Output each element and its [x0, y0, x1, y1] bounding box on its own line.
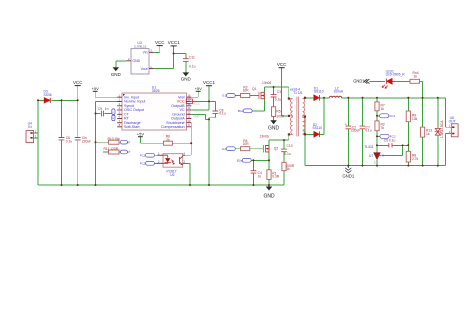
svg-text:0.1u: 0.1u: [66, 140, 73, 144]
svg-text:0.1u: 0.1u: [284, 152, 291, 156]
svg-text:U7: U7: [369, 154, 373, 158]
svg-text:14: 14: [187, 102, 190, 106]
svg-text:13n06: 13n06: [260, 134, 269, 138]
svg-text:CJ78L12: CJ78L12: [134, 45, 147, 49]
svg-text:10R: 10R: [243, 89, 250, 93]
svg-text:Vout: Vout: [141, 67, 148, 71]
svg-text:16: 16: [187, 93, 190, 97]
svg-text:220uF: 220uF: [351, 129, 360, 133]
svg-text:220uF: 220uF: [82, 140, 91, 144]
svg-text:C11: C11: [189, 55, 195, 59]
svg-text:GND: GND: [268, 125, 280, 131]
svg-text:+5V: +5V: [137, 131, 145, 136]
svg-text:Q1: Q1: [252, 87, 257, 91]
svg-text:R5: R5: [276, 109, 280, 113]
svg-text:RT: RT: [127, 141, 131, 144]
svg-text:13n06: 13n06: [262, 81, 271, 85]
svg-text:R10 15k: R10 15k: [108, 137, 121, 141]
svg-text:1k: 1k: [426, 132, 430, 136]
svg-text:100uH: 100uH: [334, 89, 344, 93]
svg-text:13: 13: [187, 106, 190, 110]
svg-text:VCC1: VCC1: [203, 80, 216, 85]
svg-text:B2a: B2a: [237, 159, 243, 163]
svg-text:1k: 1k: [414, 74, 418, 78]
svg-text:C9: C9: [98, 107, 102, 111]
svg-text:0.3R: 0.3R: [272, 175, 280, 179]
svg-text:1k: 1k: [381, 107, 385, 111]
svg-text:GND1: GND1: [353, 79, 365, 84]
svg-text:GND: GND: [194, 114, 200, 118]
svg-text:VCC: VCC: [155, 40, 165, 45]
svg-text:VCC: VCC: [277, 62, 287, 67]
svg-text:VCC1: VCC1: [193, 101, 200, 105]
svg-text:FC2: FC2: [140, 162, 146, 166]
svg-text:G1: G1: [222, 94, 226, 98]
svg-text:+: +: [345, 122, 347, 126]
svg-text:C10: C10: [287, 144, 293, 148]
svg-text:11: 11: [188, 115, 191, 119]
svg-text:10: 10: [187, 119, 190, 123]
svg-text:CT: CT: [127, 151, 131, 154]
svg-text:10k: 10k: [412, 117, 418, 121]
svg-text:TL431: TL431: [364, 145, 374, 149]
svg-text:0.1u: 0.1u: [189, 64, 196, 68]
svg-text:0.1u: 0.1u: [275, 97, 282, 101]
svg-text:C5 0.1u: C5 0.1u: [384, 139, 396, 143]
svg-text:LED-0805_R: LED-0805_R: [386, 73, 406, 77]
svg-text:10R: 10R: [243, 142, 250, 146]
svg-text:12: 12: [187, 111, 190, 115]
svg-text:1.5KE15CA: 1.5KE15CA: [440, 120, 444, 138]
svg-text:+5V: +5V: [195, 86, 203, 91]
svg-text:FC1: FC1: [390, 114, 396, 118]
svg-text:SS110: SS110: [314, 89, 324, 93]
svg-text:0.1u: 0.1u: [365, 129, 372, 133]
svg-text:SS36: SS36: [44, 93, 52, 97]
svg-text:OUT: OUT: [449, 120, 456, 124]
svg-text:VCC: VCC: [73, 80, 83, 85]
svg-text:G2: G2: [222, 147, 226, 151]
svg-text:Soft-Start: Soft-Start: [124, 125, 140, 129]
svg-text:2k: 2k: [166, 138, 170, 142]
svg-text:+5V: +5V: [92, 86, 100, 91]
svg-text:15: 15: [187, 98, 190, 102]
svg-text:FC1: FC1: [140, 153, 146, 157]
svg-text:GND: GND: [263, 194, 275, 200]
svg-text:GND: GND: [181, 76, 192, 81]
svg-text:T1 1/6: T1 1/6: [293, 91, 302, 95]
svg-text:GND: GND: [111, 72, 122, 77]
svg-text:GND1: GND1: [342, 173, 355, 178]
svg-text:3525: 3525: [152, 89, 160, 93]
svg-text:Q2: Q2: [274, 147, 279, 151]
svg-text:B1a: B1a: [238, 109, 244, 113]
svg-text:7k: 7k: [381, 126, 385, 130]
svg-text:100R: 100R: [276, 115, 285, 119]
svg-text:1k: 1k: [286, 167, 290, 171]
svg-text:SS110: SS110: [312, 126, 322, 130]
svg-text:0.1u: 0.1u: [219, 112, 226, 116]
svg-text:U2: U2: [170, 173, 174, 177]
svg-text:R11 120R: R11 120R: [104, 147, 119, 151]
svg-text:C3: C3: [277, 90, 281, 94]
svg-text:2.7k: 2.7k: [412, 157, 419, 161]
svg-text:VCC1: VCC1: [168, 40, 181, 45]
svg-text:1n: 1n: [105, 107, 109, 111]
svg-text:GND: GND: [132, 59, 140, 63]
svg-text:Compensation: Compensation: [161, 125, 185, 129]
svg-text:Vin: Vin: [143, 51, 148, 55]
svg-text:1n: 1n: [258, 174, 262, 178]
